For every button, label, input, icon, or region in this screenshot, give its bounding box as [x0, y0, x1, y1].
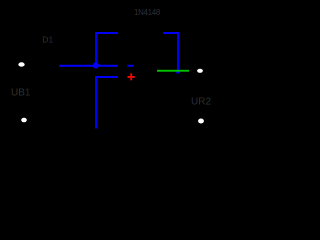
- capacitor minus polarity mark: [127, 65, 133, 67]
- svg-text:1N4148: 1N4148: [134, 8, 161, 17]
- wire: green horizontal y=69.8 from x=157 to 189: [157, 70, 189, 72]
- wire: lower horizontal rail y=76 from x=95 to 118: [95, 76, 118, 78]
- wire: lower vertical x=95 from y=76 to 128: [95, 76, 97, 129]
- wire: left vertical x=95 from y=32 to node: [95, 32, 97, 65]
- terminal ellipse E2 left bottom: [21, 118, 27, 123]
- node dot where right vertical meets green wire: [176, 70, 180, 73]
- terminal ellipse E1 left top: [18, 62, 24, 66]
- wire: right vertical x=177 from y=32 to 73: [177, 32, 179, 73]
- wire: middle horizontal rail y=64.6 from x=59 to 117.5: [59, 65, 118, 67]
- svg-text:D1: D1: [42, 35, 53, 45]
- wire: top-right horizontal y=32 from x=163 to 178.5: [163, 32, 179, 34]
- terminal ellipse E4 right bottom: [198, 119, 204, 124]
- svg-text:UB1: UB1: [11, 88, 31, 99]
- capacitor plus polarity mark (red): [128, 76, 135, 78]
- svg-text:UR2: UR2: [191, 97, 211, 108]
- terminal ellipse E3 right top: [197, 69, 203, 73]
- wire: top-left horizontal y=32 from x=95 to 118: [95, 32, 118, 34]
- node junction dot at (95.7,65.4): [93, 62, 99, 68]
